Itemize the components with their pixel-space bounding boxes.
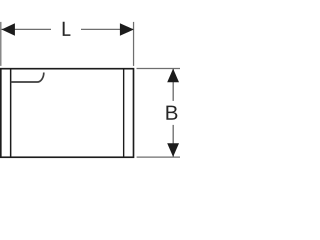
arrowhead L left: [2, 23, 15, 36]
dimension line B lower segment: [172, 125, 174, 157]
inner right panel line: [123, 69, 125, 158]
dimension line L right segment: [81, 28, 134, 30]
top extension line (B): [137, 68, 181, 70]
inner left panel line: [10, 69, 12, 158]
bottom extension line (B): [137, 156, 180, 158]
extension line left (L): [0, 22, 2, 66]
dimension line L left segment: [2, 28, 52, 30]
label B: [166, 106, 177, 120]
arrowhead B top: [167, 69, 179, 83]
extension line right (L): [133, 22, 135, 66]
arrowhead L right: [120, 23, 134, 36]
interior curved detail: [11, 73, 44, 83]
dimension line B upper segment: [172, 69, 174, 101]
cabinet outline: [1, 69, 134, 158]
label L: [63, 22, 71, 36]
arrowhead B bottom: [167, 143, 179, 157]
